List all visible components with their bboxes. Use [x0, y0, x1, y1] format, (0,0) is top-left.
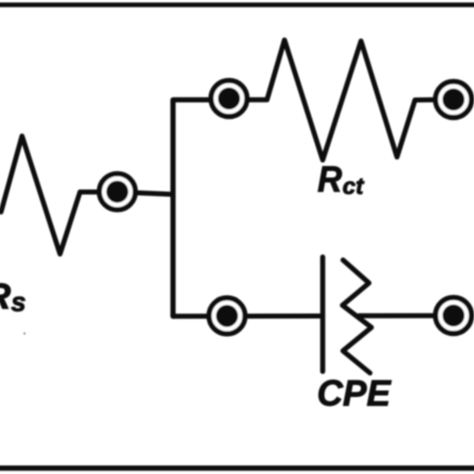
svg-text:s: s — [11, 287, 26, 317]
svg-text:ct: ct — [343, 173, 365, 199]
svg-text:R: R — [0, 276, 11, 317]
svg-text:CPE: CPE — [317, 373, 391, 414]
svg-text:R: R — [318, 158, 343, 199]
